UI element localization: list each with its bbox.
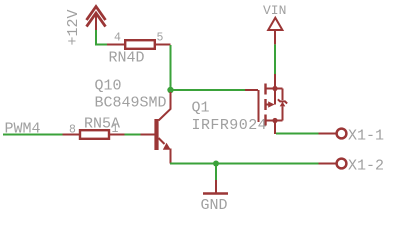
svg-text:+12V: +12V	[65, 9, 82, 45]
transistor Q10 emitter pin	[170, 149, 172, 164]
wire RN5A to base	[125, 134, 141, 136]
transistor Q10 base bar	[154, 119, 158, 150]
junction node GND	[213, 161, 219, 167]
svg-text:X1-2: X1-2	[348, 158, 384, 175]
mosfet Q1 source pin	[274, 83, 276, 89]
mosfet Q1 body diode branch	[275, 89, 283, 121]
connector pin X1-2 lead	[319, 163, 336, 165]
svg-text:IRFR9024: IRFR9024	[192, 117, 268, 134]
svg-text:5: 5	[157, 32, 164, 45]
connector pin X1-2 circle	[337, 159, 347, 169]
svg-text:8: 8	[69, 123, 76, 136]
transistor Q10 base pin	[141, 134, 155, 136]
VIN pin stub	[274, 31, 276, 84]
mosfet Q1 body diode cathode	[278, 99, 287, 103]
mosfet Q1 drain pin	[274, 121, 276, 135]
resistor RN4D left pin	[107, 44, 125, 46]
resistor RN4D right pin	[155, 44, 171, 46]
resistor RN5A left pin	[63, 134, 81, 136]
gnd symbol	[203, 180, 228, 194]
mosfet Q1 gate line	[258, 90, 260, 122]
svg-text:BC849SMD: BC849SMD	[95, 95, 167, 112]
net PWM4 wire	[3, 134, 63, 136]
wire +12V vertical and to R pin	[96, 30, 108, 45]
svg-text:4: 4	[114, 32, 121, 45]
mosfet Q1 source stub	[267, 88, 276, 90]
mosfet Q1 gate pin	[245, 89, 258, 91]
wire VIN to mosfet source	[274, 44, 276, 74]
supply symbol VIN triangle	[268, 18, 282, 30]
svg-text:Q1: Q1	[192, 100, 210, 117]
wire R4 to collector node	[170, 45, 172, 90]
mosfet Q1 bulk rail	[274, 89, 276, 105]
junction node collector/gate	[167, 87, 173, 93]
wire junction to GND symbol	[215, 164, 217, 181]
svg-text:VIN: VIN	[263, 3, 286, 18]
transistor Q10 emitter arrow	[163, 143, 171, 150]
svg-text:X1-1: X1-1	[348, 128, 384, 145]
resistor RN5A right pin	[110, 134, 125, 136]
connector pin X1-1 lead	[319, 133, 336, 135]
resistor RN4D body	[125, 40, 155, 49]
mosfet Q1 drain stub	[267, 120, 276, 122]
mosfet Q1 drain dot	[272, 118, 277, 123]
transistor Q10 collector lead	[159, 92, 171, 121]
mosfet Q1 source dot	[272, 86, 277, 91]
mosfet Q1 bulk arrow	[267, 104, 270, 106]
svg-text:GND: GND	[201, 197, 228, 214]
svg-text:PWM4: PWM4	[5, 120, 41, 137]
resistor RN5A body	[80, 130, 109, 139]
svg-text:RN4D: RN4D	[109, 50, 145, 67]
connector pin X1-1 circle	[337, 129, 347, 139]
supply symbol +12V arrow	[87, 7, 106, 32]
mosfet Q1 channel dashes	[264, 84, 266, 126]
mosfet Q1 body diode anode triangle	[280, 102, 286, 107]
wire emitter to bottom net	[170, 163, 319, 165]
svg-text:Q10: Q10	[95, 78, 122, 95]
wire node to gate	[171, 89, 246, 91]
wire mosfet drain to X1-1	[276, 133, 319, 135]
svg-text:RN5A: RN5A	[84, 116, 120, 133]
transistor Q10 emitter lead	[159, 138, 165, 144]
